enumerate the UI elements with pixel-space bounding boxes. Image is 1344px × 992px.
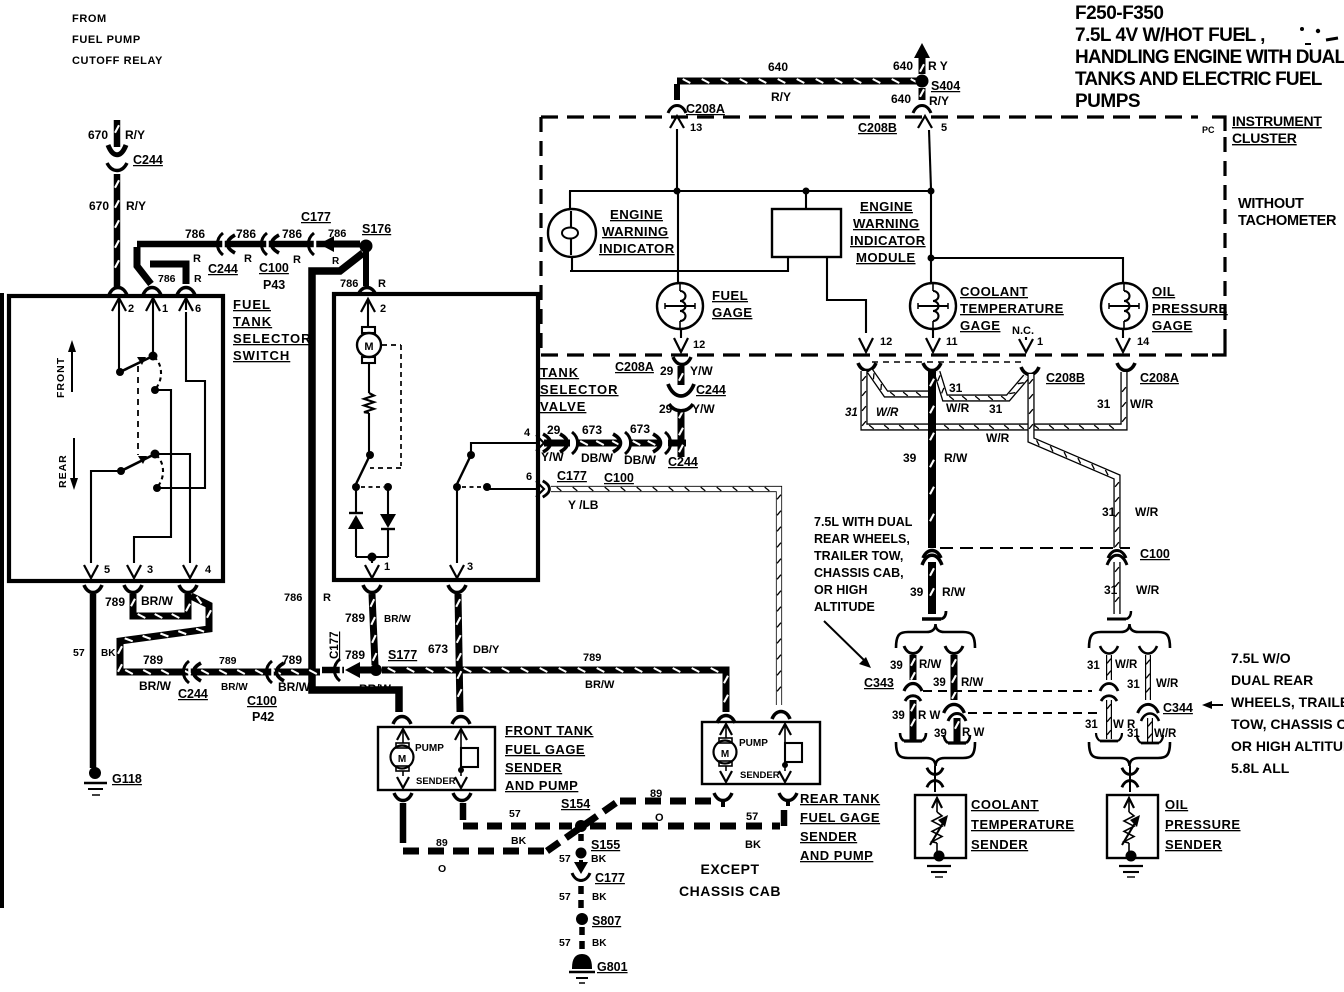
svg-text:SENDER: SENDER xyxy=(1165,837,1222,852)
wire 786 R inner loop to switch pin 6 xyxy=(150,264,186,284)
svg-text:PUMPS: PUMPS xyxy=(1075,91,1140,112)
svg-text:COOLANT: COOLANT xyxy=(960,284,1028,299)
svg-text:OIL: OIL xyxy=(1165,797,1188,812)
valve switch 1 pivot dot xyxy=(366,451,374,459)
switch pin 4 arrow xyxy=(183,564,212,578)
label WITHOUT TACHOMETER xyxy=(1238,196,1337,229)
svg-text:GAGE: GAGE xyxy=(1152,318,1192,333)
svg-text:TANKS AND ELECTRIC FUEL: TANKS AND ELECTRIC FUEL xyxy=(1075,69,1323,90)
svg-text:Y/W: Y/W xyxy=(690,364,713,378)
cup below valve pin 3 xyxy=(448,585,466,593)
svg-text:BR/W: BR/W xyxy=(141,594,174,608)
label C100 P43 xyxy=(259,261,289,292)
wire 786 R from S176 to valve pin 2 xyxy=(363,251,369,286)
svg-text:PRESSURE: PRESSURE xyxy=(1152,301,1228,316)
connector C244 on 786 run xyxy=(217,233,235,255)
front pump pin arrows xyxy=(397,729,467,745)
svg-text:673: 673 xyxy=(630,422,650,436)
svg-text:BK: BK xyxy=(745,839,761,851)
svg-text:R Y: R Y xyxy=(928,59,948,73)
label 31 W/R italic xyxy=(845,407,899,419)
diode D1 up xyxy=(348,487,364,557)
svg-text:57: 57 xyxy=(559,891,571,903)
cluster box bottom right corner xyxy=(1212,344,1225,355)
front switch throw dot xyxy=(151,386,159,394)
svg-text:S404: S404 xyxy=(931,79,960,93)
svg-text:OR HIGH: OR HIGH xyxy=(814,583,867,597)
label S154 xyxy=(561,797,590,811)
svg-text:FRONT TANK: FRONT TANK xyxy=(505,723,594,738)
svg-text:57: 57 xyxy=(559,937,571,949)
svg-text:BR/W: BR/W xyxy=(278,680,311,694)
rear tank pump box xyxy=(702,722,820,784)
label 31 W/R right xyxy=(1097,397,1154,411)
cup below rear pump right xyxy=(779,793,797,806)
svg-text:C208B: C208B xyxy=(858,121,897,135)
cup C208A below cluster xyxy=(673,357,691,365)
svg-text:PRESSURE: PRESSURE xyxy=(1165,817,1241,832)
svg-text:W/R: W/R xyxy=(1136,583,1160,597)
svg-text:1: 1 xyxy=(384,561,390,573)
svg-text:W/R: W/R xyxy=(1130,397,1154,411)
label 786 R at valve pin 2 xyxy=(340,278,386,290)
wire 789 Z-path from pin 4 xyxy=(118,596,211,674)
svg-text:WHEELS, TRAILER: WHEELS, TRAILER xyxy=(1231,694,1344,710)
svg-text:R W: R W xyxy=(962,727,985,739)
svg-text:SENDER: SENDER xyxy=(416,776,456,787)
svg-text:789: 789 xyxy=(583,652,601,664)
wire rear contact to pin 5 xyxy=(91,471,121,563)
svg-text:1: 1 xyxy=(1037,336,1043,348)
C344 bottom brace xyxy=(1089,742,1170,766)
svg-text:WITHOUT: WITHOUT xyxy=(1238,196,1304,212)
splice S807 xyxy=(576,913,588,925)
svg-text:R/W: R/W xyxy=(961,677,984,689)
wire 89 O dashed right xyxy=(620,798,716,805)
valve pin 3 arrow xyxy=(450,561,473,578)
elbow 673 to 29 vertical xyxy=(668,440,686,447)
label 29 Y/W lower xyxy=(659,402,715,416)
label 31 upper mid xyxy=(949,381,963,395)
svg-text:640: 640 xyxy=(768,60,788,74)
label 789 BR/W at C244 bottom xyxy=(139,653,172,693)
svg-text:M: M xyxy=(721,749,729,760)
label 39 R/W upper xyxy=(903,451,968,465)
label W/R mid xyxy=(946,401,970,415)
svg-text:640: 640 xyxy=(891,92,911,106)
wire 640 R/Y horizontal xyxy=(677,79,919,83)
svg-text:G801: G801 xyxy=(597,960,628,974)
label PUMP rear xyxy=(739,738,768,749)
wire coolant gage top xyxy=(930,191,932,284)
svg-text:5: 5 xyxy=(941,122,947,134)
connector C244 on 670 wire xyxy=(107,145,127,171)
cup at rear pump right pin xyxy=(772,712,790,720)
oil pin 14 arrow xyxy=(1116,329,1150,352)
svg-text:670: 670 xyxy=(88,128,108,142)
title F250-F350 block xyxy=(1075,3,1344,112)
svg-text:R/W: R/W xyxy=(942,585,966,599)
rear pump bottom arrows xyxy=(720,762,791,782)
connector C177 arc on 789 xyxy=(322,659,344,681)
cup at switch pin 2 xyxy=(109,288,127,296)
svg-text:O: O xyxy=(438,863,446,875)
svg-text:W/R: W/R xyxy=(946,401,970,415)
svg-text:TACHOMETER: TACHOMETER xyxy=(1238,213,1337,229)
svg-text:BR/W: BR/W xyxy=(384,614,411,625)
label PC xyxy=(1202,125,1215,135)
C344 top brace xyxy=(1089,624,1170,648)
label S176 xyxy=(362,222,391,236)
label 786 R on long vertical xyxy=(284,592,331,604)
svg-text:DB/W: DB/W xyxy=(581,451,614,465)
valve pin 4 edge arrow xyxy=(524,427,544,451)
svg-text:BR/W: BR/W xyxy=(585,679,615,691)
splice S177 xyxy=(370,664,382,676)
wire lamp to module bottom xyxy=(570,258,788,271)
fuel gage xyxy=(657,283,703,329)
svg-text:C177: C177 xyxy=(329,632,341,660)
svg-text:31: 31 xyxy=(1127,679,1140,691)
svg-text:PUMP: PUMP xyxy=(415,743,444,754)
svg-text:AND PUMP: AND PUMP xyxy=(505,778,578,793)
label TANK SELECTOR VALVE xyxy=(540,365,619,414)
wire 57 BK front drop xyxy=(460,803,467,820)
svg-text:786: 786 xyxy=(185,227,205,241)
svg-text:786: 786 xyxy=(284,592,302,604)
svg-text:12: 12 xyxy=(880,336,892,348)
splice S176 xyxy=(360,240,373,253)
C343 top brace xyxy=(896,624,975,648)
svg-text:C244: C244 xyxy=(668,455,698,469)
wire Y/LB hollow run xyxy=(543,481,781,705)
label OIL PRESSURE GAGE xyxy=(1152,284,1228,333)
wire resistor to switch xyxy=(368,413,370,452)
front sender resistor xyxy=(458,745,478,773)
wire lamp bottom xyxy=(571,257,573,271)
svg-text:BR/W: BR/W xyxy=(139,679,172,693)
svg-text:789: 789 xyxy=(143,653,163,667)
wire 673 DB/W segment 1 xyxy=(576,441,620,445)
valve switch dashed between contacts xyxy=(361,486,384,488)
svg-text:R/W: R/W xyxy=(919,659,942,671)
switch pin 3 arrow xyxy=(127,564,153,578)
svg-text:REAR WHEELS,: REAR WHEELS, xyxy=(814,532,910,546)
svg-text:TANK: TANK xyxy=(540,365,579,380)
fuel gage pin 12 arrow xyxy=(674,329,705,352)
svg-text:C100: C100 xyxy=(259,261,289,275)
svg-text:DB/W: DB/W xyxy=(624,453,657,467)
valve switch 1 throw dot xyxy=(384,483,392,491)
svg-text:BK: BK xyxy=(511,835,527,847)
page edge line xyxy=(0,293,4,908)
label 89 O right xyxy=(650,788,664,824)
svg-text:57: 57 xyxy=(559,853,571,865)
valve resistor xyxy=(364,393,374,413)
svg-text:31: 31 xyxy=(949,381,963,395)
valve pin 6 edge arrow xyxy=(526,471,544,497)
label C208A below cluster xyxy=(615,360,654,374)
label SENDER rear xyxy=(740,770,780,781)
svg-text:3: 3 xyxy=(147,564,153,576)
svg-text:C344: C344 xyxy=(1163,701,1193,715)
svg-text:VALVE: VALVE xyxy=(540,399,586,414)
arrow to C343 xyxy=(824,621,871,668)
svg-text:C100: C100 xyxy=(604,471,634,485)
svg-text:673: 673 xyxy=(428,642,448,656)
wire front throw to pin 3 xyxy=(134,390,171,563)
C344 stub 4 xyxy=(1137,714,1163,744)
fuel tank selector switch box xyxy=(9,296,223,581)
junction dot pin13 bus xyxy=(674,188,681,195)
label 786 R inner loop xyxy=(158,273,202,285)
coolant sender connector xyxy=(927,766,943,792)
NC pin 1 arrow xyxy=(1019,336,1043,352)
svg-text:ENGINE: ENGINE xyxy=(860,199,913,214)
svg-text:5.8L ALL: 5.8L ALL xyxy=(1231,760,1290,776)
svg-text:INSTRUMENT: INSTRUMENT xyxy=(1232,113,1322,129)
valve switch 2 throw dot xyxy=(483,483,491,491)
svg-text:M: M xyxy=(398,754,406,765)
svg-text:R: R xyxy=(332,256,340,267)
ground G801 xyxy=(569,955,595,983)
labels R on horizontal run xyxy=(193,253,340,267)
svg-text:89: 89 xyxy=(436,837,448,849)
front pump motor xyxy=(391,743,414,771)
label 789 BR/W at pin 3 xyxy=(105,594,174,609)
svg-text:89: 89 xyxy=(650,788,662,800)
wire 789 valve pin1 to S177 xyxy=(371,594,377,665)
svg-text:57: 57 xyxy=(509,808,521,820)
cluster box right edge xyxy=(1223,137,1226,344)
svg-text:EXCEPT: EXCEPT xyxy=(700,861,759,877)
valve switch 2 arm xyxy=(457,455,471,484)
label 789 BR/W long run xyxy=(583,652,615,691)
svg-text:786: 786 xyxy=(282,227,302,241)
cup pin 14 below cluster xyxy=(1117,363,1135,371)
label 39 R/W lower xyxy=(910,585,966,599)
wire 31 W/R lower xyxy=(1115,562,1119,614)
cluster bus wire xyxy=(569,190,931,192)
wire 670 R/Y upper segment xyxy=(115,120,119,147)
svg-text:C177: C177 xyxy=(557,469,587,483)
svg-text:ALTITUDE: ALTITUDE xyxy=(814,600,875,614)
dashed line at C100 xyxy=(940,547,1130,549)
C343 bottom brace xyxy=(896,742,975,766)
pin 13 arrow xyxy=(670,116,702,134)
wire 789 BR/W horizontal to S177 xyxy=(178,670,320,674)
wire switch2 to valve pin 3 xyxy=(456,487,458,563)
svg-text:SENDER: SENDER xyxy=(505,760,562,775)
wire 89 O diagonal through S154 xyxy=(547,800,620,851)
svg-text:R: R xyxy=(323,592,331,604)
svg-text:G118: G118 xyxy=(112,772,142,786)
solid arrowhead up at top xyxy=(914,43,930,58)
cup at rear pump left pin xyxy=(717,716,735,724)
switch pin 1 arrow xyxy=(146,298,168,315)
svg-text:DB/Y: DB/Y xyxy=(473,644,500,656)
label 673 DB/W seg2 xyxy=(624,422,657,467)
svg-text:S155: S155 xyxy=(591,838,620,852)
label FUEL TANK SELECTOR SWITCH xyxy=(233,297,312,363)
svg-text:AND PUMP: AND PUMP xyxy=(800,848,873,863)
wire 29 Y/W at valve pin 4 xyxy=(543,434,570,452)
label 640 R Y top xyxy=(893,59,948,73)
svg-text:DUAL REAR: DUAL REAR xyxy=(1231,672,1313,688)
svg-text:789: 789 xyxy=(345,611,365,625)
svg-text:S177: S177 xyxy=(388,648,417,662)
label 640 R/Y below S404 xyxy=(891,92,949,108)
svg-text:FROM: FROM xyxy=(72,13,107,25)
wire 786 R horizontal xyxy=(137,241,360,248)
label S807 xyxy=(592,914,621,928)
wire motor to resistor xyxy=(368,363,370,393)
svg-text:F250-F350: F250-F350 xyxy=(1075,3,1163,24)
wire 39 R/W heavy upper xyxy=(930,369,934,548)
junction dot module bus xyxy=(803,188,810,195)
svg-text:FUEL: FUEL xyxy=(233,297,271,312)
svg-text:WARNING: WARNING xyxy=(602,224,669,239)
svg-text:TOW, CHASSIS CAB: TOW, CHASSIS CAB xyxy=(1231,716,1344,732)
wire 789 BR/W S177 to rear pump xyxy=(382,668,728,712)
wire module to pin 12 xyxy=(827,257,866,333)
splice S155 xyxy=(576,848,587,859)
svg-text:2: 2 xyxy=(128,303,134,315)
svg-text:CHASSIS CAB,: CHASSIS CAB, xyxy=(814,566,904,580)
svg-text:REAR TANK: REAR TANK xyxy=(800,791,880,806)
wire 786 R long feed to front pump xyxy=(312,253,399,712)
svg-text:TRAILER TOW,: TRAILER TOW, xyxy=(814,549,903,563)
svg-text:INDICATOR: INDICATOR xyxy=(850,233,926,248)
label 39 R/W stub2 xyxy=(933,677,984,689)
svg-text:31: 31 xyxy=(989,402,1003,416)
connector C100 on 31 wire xyxy=(1107,551,1127,566)
labels 786 on horizontal run xyxy=(185,227,346,241)
switch pin 2 arrow xyxy=(112,298,134,315)
svg-text:W/R: W/R xyxy=(1154,728,1177,740)
label C177 C100 on YLB xyxy=(557,469,634,485)
label 31 right mid xyxy=(989,402,1003,416)
svg-text:OIL: OIL xyxy=(1152,284,1175,299)
svg-text:TANK: TANK xyxy=(233,314,272,329)
svg-text:FUEL: FUEL xyxy=(712,288,748,303)
cup at switch pin 6 xyxy=(177,288,195,296)
svg-text:OR HIGH ALTITUDE: OR HIGH ALTITUDE xyxy=(1231,738,1344,754)
splice S404 xyxy=(916,75,929,88)
label EXCEPT CHASSIS CAB xyxy=(679,861,781,899)
label 670 R/Y upper xyxy=(88,128,145,142)
cluster box top edge xyxy=(541,115,1198,118)
svg-text:R: R xyxy=(194,273,202,285)
wire 57 BK to G118 xyxy=(90,594,97,768)
svg-text:C244: C244 xyxy=(696,383,726,397)
wire bus to oil gage xyxy=(931,258,1123,284)
svg-text:R: R xyxy=(378,278,386,290)
wire pin2 to front switch contact xyxy=(118,310,120,369)
junction dot pin5 bus xyxy=(928,188,935,195)
connector C177 on 29 run xyxy=(560,432,578,454)
ground G118 xyxy=(84,767,107,795)
svg-text:57: 57 xyxy=(73,647,85,659)
C344 stub 1 xyxy=(1100,646,1118,691)
svg-text:789: 789 xyxy=(219,655,237,667)
front tank pump box xyxy=(378,727,495,790)
wire W/R pin12 short to R/W wire xyxy=(870,371,928,396)
svg-text:FRONT: FRONT xyxy=(55,357,67,398)
coolant pin 11 arrow xyxy=(926,329,958,352)
valve switch 2 pivot dot xyxy=(467,451,475,459)
valve motor M xyxy=(357,327,381,363)
valve switch 2 contact dot xyxy=(453,483,461,491)
svg-text:FUEL PUMP: FUEL PUMP xyxy=(72,34,141,46)
valve pin 2 arrow xyxy=(361,299,386,327)
svg-text:Y/W: Y/W xyxy=(692,402,715,416)
cup below front pump left xyxy=(394,793,412,801)
label C208B below cluster xyxy=(1046,371,1085,385)
label C177 rotated xyxy=(329,632,341,660)
label 789 BR/W on pin1 wire xyxy=(345,611,411,625)
valve junction dot pin1 xyxy=(368,553,377,562)
svg-text:FUEL GAGE: FUEL GAGE xyxy=(800,810,880,825)
wire pin1 to front switch pivot xyxy=(152,310,154,353)
svg-text:W/R: W/R xyxy=(876,407,899,419)
wire 640 R/Y above S404 xyxy=(920,58,924,74)
C343 lower dashed link xyxy=(968,712,1098,714)
svg-text:SENDER: SENDER xyxy=(800,829,857,844)
svg-text:R: R xyxy=(244,253,252,265)
svg-text:S807: S807 xyxy=(592,914,621,928)
svg-text:2: 2 xyxy=(380,303,386,315)
rear pump pin arrows xyxy=(720,724,791,740)
svg-text:W/R: W/R xyxy=(1156,678,1179,690)
label 789 BR/W mid xyxy=(219,655,248,693)
junction dot coolant bus xyxy=(928,255,935,262)
label COOLANT TEMPERATURE SENDER xyxy=(971,797,1074,852)
svg-text:CHASSIS CAB: CHASSIS CAB xyxy=(679,883,781,899)
wire 57 BK dash to S807 xyxy=(578,886,584,910)
connector C244 on 673 run xyxy=(653,432,671,454)
wire 786 R corner to switch pin 1 xyxy=(137,247,151,284)
cluster box top right corner xyxy=(1212,117,1225,131)
svg-text:FUEL GAGE: FUEL GAGE xyxy=(505,742,585,757)
label 789 above S177 xyxy=(345,648,365,662)
wire valve pin 4 to switch 2 xyxy=(471,443,536,452)
C344 stub 3 xyxy=(1096,696,1122,741)
cup below pin 3 xyxy=(124,585,142,593)
label C208A right below cluster xyxy=(1140,371,1179,385)
label C177 bottom xyxy=(595,871,625,885)
switch pin 6 arrow xyxy=(179,298,201,315)
label 39 R/W stub1 xyxy=(890,659,942,672)
rear pump motor xyxy=(714,738,737,766)
cup below valve pin 1 xyxy=(363,585,381,593)
label 31 W/R diagonal xyxy=(1102,505,1159,519)
svg-text:789: 789 xyxy=(282,653,302,667)
text FROM FUEL PUMP CUTOFF RELAY xyxy=(72,13,163,67)
svg-text:C244: C244 xyxy=(178,687,208,701)
svg-text:S154: S154 xyxy=(561,797,590,811)
label C244 bottom run xyxy=(178,687,208,701)
svg-text:5: 5 xyxy=(104,564,110,576)
svg-text:7.5L WITH DUAL: 7.5L WITH DUAL xyxy=(814,515,913,529)
label C244 on 29 vertical xyxy=(696,383,726,397)
svg-text:SWITCH: SWITCH xyxy=(233,348,290,363)
label 39 R/W stub3 xyxy=(892,710,941,722)
C343 stub 3 xyxy=(900,696,926,741)
svg-text:CUTOFF RELAY: CUTOFF RELAY xyxy=(72,55,163,67)
svg-text:R/Y: R/Y xyxy=(929,94,949,108)
cup pin 11 below cluster xyxy=(923,363,941,371)
